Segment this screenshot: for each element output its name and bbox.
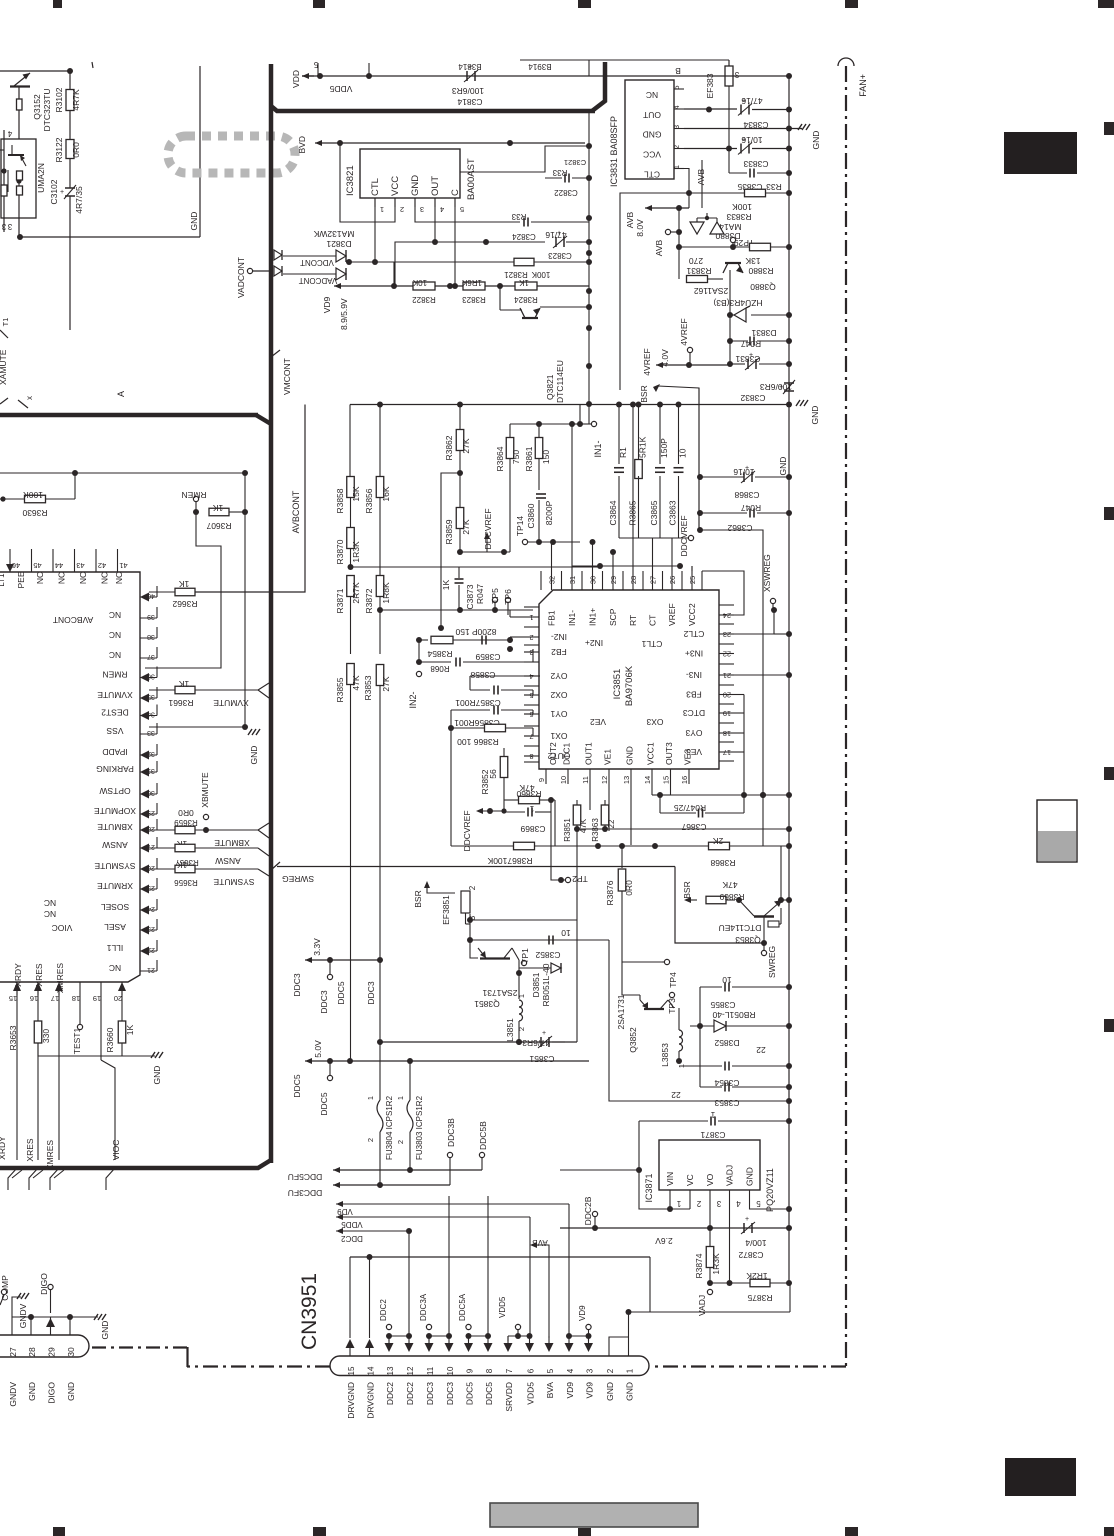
svg-text:28: 28 (27, 1347, 37, 1357)
registration mark top 1 (53, 0, 62, 8)
wire box around Q3851 (466, 923, 471, 925)
svg-text:Q3851: Q3851 (474, 999, 500, 1009)
wire R3821 to bus (534, 261, 589, 263)
svg-text:ANSW: ANSW (102, 840, 128, 850)
svg-text:BVD: BVD (297, 136, 307, 153)
resistor R3858 15K (347, 477, 355, 498)
svg-text:R3102: R3102 (54, 87, 64, 112)
svg-text:2.6V: 2.6V (655, 1236, 673, 1246)
svg-text:1K: 1K (441, 579, 451, 590)
svg-text:FU3803 ICPS1R2: FU3803 ICPS1R2 (415, 1095, 424, 1160)
svg-text:HZU4R3(B3): HZU4R3(B3) (713, 298, 762, 308)
svg-text:DDC3: DDC3 (319, 990, 329, 1013)
left IC pin 23 ASEL (140, 929, 157, 931)
diode D3821 pair at bus (left half) (274, 250, 282, 260)
IC3851 bottom pin 11 OUT1 (589, 769, 591, 784)
svg-text:XMRES: XMRES (45, 1140, 55, 1171)
svg-text:AVBCONT: AVBCONT (53, 615, 93, 625)
svg-text:AVB: AVB (696, 168, 706, 185)
resistor R3630 100K (0, 498, 24, 500)
resistor R3866 100 (448, 725, 454, 731)
svg-text:DDC3A: DDC3A (419, 1293, 428, 1321)
IC3851 bottom pin 14 VCC1 (651, 769, 653, 784)
IC3851 top pin 27 CT (652, 566, 654, 590)
svg-text:VIOC: VIOC (52, 923, 73, 933)
wire pin17-20 stubs (734, 694, 744, 696)
svg-text:R3868: R3868 (710, 858, 735, 868)
resistor R3862 27K (459, 405, 461, 431)
svg-text:DDCVREF: DDCVREF (483, 508, 493, 549)
rail y=846 long (555, 845, 789, 847)
net DDCVREF arrow left (476, 808, 483, 814)
svg-text:11: 11 (426, 1366, 435, 1375)
terminal DDC2B (592, 1211, 597, 1216)
svg-text:C3868: C3868 (734, 490, 759, 500)
wire VIOC down (100, 995, 102, 1060)
svg-text:47/16: 47/16 (545, 230, 567, 240)
connector CN3951 body (330, 1356, 649, 1376)
wire row y=795 to x=763 and 789 (744, 794, 789, 796)
svg-text:3: 3 (734, 70, 739, 79)
wire VD9 x=569 down (568, 1204, 570, 1336)
svg-text:1: 1 (396, 1096, 405, 1100)
svg-text:2K: 2K (712, 836, 723, 846)
svg-text:VDD5: VDD5 (329, 84, 352, 94)
wire VDCONT into diode (283, 255, 336, 257)
svg-text:DDC3B: DDC3B (446, 1118, 456, 1147)
svg-text:DDC3: DDC3 (445, 1382, 455, 1405)
tick marks top left (18, 400, 28, 408)
chain boundary line bottom right horizontal (651, 1365, 846, 1367)
svg-text:BSR: BSR (682, 881, 692, 898)
svg-text:5: 5 (546, 1368, 555, 1373)
left IC pin 40 NC (140, 596, 157, 598)
svg-text:+: + (745, 1216, 749, 1223)
svg-text:IN3-: IN3- (686, 670, 702, 680)
svg-text:SYSMUTE: SYSMUTE (213, 877, 254, 887)
IC3831 BA08SFP body (625, 80, 674, 179)
left IC pin 26 SYSMUTE (140, 868, 157, 870)
svg-text:19: 19 (93, 994, 101, 1003)
svg-text:VD9: VD9 (322, 296, 332, 313)
svg-text:1R6K: 1R6K (461, 278, 482, 287)
svg-text:GND: GND (811, 131, 821, 150)
svg-text:XRDY: XRDY (13, 963, 23, 987)
svg-text:R3874: R3874 (694, 1253, 704, 1278)
svg-text:7: 7 (505, 1368, 514, 1373)
svg-text:DIGO: DIGO (39, 1273, 49, 1295)
resistor R3869 47K and BSR arrow (684, 897, 691, 903)
IC3851 left pin 7 (524, 735, 539, 737)
svg-text:R047/25: R047/25 (674, 803, 706, 813)
svg-text:D3852: D3852 (714, 1038, 739, 1048)
svg-text:47K: 47K (722, 880, 737, 890)
wire pin23 CTL2 right to x=774 (734, 633, 774, 635)
svg-text:IC3871: IC3871 (644, 1173, 654, 1202)
svg-text:PEE: PEE (16, 571, 26, 588)
registration mark top 2 (313, 0, 325, 8)
rail y=567 (351, 566, 601, 568)
svg-text:DDC2: DDC2 (379, 1299, 388, 1321)
svg-text:VCC: VCC (643, 150, 661, 160)
IC3851 left pin 4 (524, 675, 539, 677)
junction wires DDC2 pins 13/12 (388, 1336, 390, 1341)
svg-text:OUT3: OUT3 (664, 742, 674, 765)
svg-text:FAN+: FAN+ (858, 74, 868, 97)
svg-text:1R3K: 1R3K (711, 1253, 721, 1275)
svg-text:CTL: CTL (370, 178, 381, 196)
transistor UMA2N (dual digital transistor box) (1, 139, 36, 218)
svg-text:330: 330 (41, 1029, 51, 1043)
resistor R3853 27K (379, 610, 381, 654)
wire R3862 tap left down to 8200P row (441, 473, 460, 628)
svg-text:CN3951: CN3951 (298, 1273, 321, 1350)
svg-text:OX3: OX3 (646, 717, 663, 727)
svg-text:28: 28 (629, 576, 638, 584)
svg-text:C3831: C3831 (735, 354, 760, 364)
svg-text:R3864: R3864 (495, 446, 505, 471)
net DDCVREF arrow up (484, 532, 490, 539)
svg-text:R3607: R3607 (206, 521, 231, 531)
svg-text:10: 10 (561, 928, 571, 938)
svg-text:SWREG: SWREG (282, 874, 314, 884)
svg-text:XRMUTE: XRMUTE (97, 881, 133, 891)
svg-text:C3824: C3824 (512, 232, 536, 241)
wires GND pins 1/2 (609, 1337, 629, 1356)
svg-text:2SA1731: 2SA1731 (482, 988, 517, 998)
wire left long vertical from R3833 row (620, 193, 700, 390)
wire x=763 vertical to 846 (762, 795, 764, 846)
wire RMEN down to pin36 (145, 512, 221, 668)
junction wires DDC3 pins 11/10 (428, 1336, 430, 1341)
svg-text:XOPMUTE: XOPMUTE (94, 806, 136, 816)
test point TP2 (565, 877, 570, 882)
svg-text:1K: 1K (212, 503, 223, 513)
svg-text:R047: R047 (741, 503, 762, 513)
svg-text:TP6: TP6 (503, 589, 513, 605)
svg-text:150: 150 (541, 450, 551, 464)
registration mark right edge 4 (1104, 1019, 1114, 1032)
svg-text:VD9: VD9 (337, 1207, 353, 1216)
rail y=538 collect caps (619, 537, 691, 539)
terminal DDC3B (447, 1152, 452, 1157)
wire pin1 to R3875 net (629, 1311, 791, 1313)
svg-text:38: 38 (147, 633, 155, 640)
IC3851 bottom pin 12 VE1 (608, 769, 610, 784)
resistor R3874 1R3K (709, 1228, 711, 1247)
svg-text:R3872: R3872 (364, 588, 374, 613)
svg-text:21: 21 (147, 966, 155, 973)
svg-text:1K: 1K (178, 679, 189, 689)
IC3851 left pin 5 (524, 694, 539, 696)
left IC pin 29 XOPMUTE (140, 813, 157, 815)
svg-text:47K: 47K (579, 818, 588, 833)
svg-text:DDC5FU: DDC5FU (288, 1172, 322, 1182)
svg-text:TP2: TP2 (572, 874, 588, 884)
IC3851 left pin 6 (524, 713, 539, 715)
IC3851 top pin 28 RT (632, 566, 634, 590)
IC op-amp IC3821 BA00AST body (360, 149, 460, 198)
svg-text:20: 20 (723, 691, 731, 700)
svg-text:VE1: VE1 (603, 749, 613, 765)
wire x=589 vertical collector bus (588, 110, 590, 424)
wire pin3 GND right (415, 198, 520, 222)
svg-text:C3821: C3821 (564, 158, 586, 167)
rail y=552 to R3864 (460, 551, 510, 553)
svg-text:1: 1 (672, 165, 681, 169)
svg-text:VADJ: VADJ (725, 1165, 735, 1186)
svg-text:R068: R068 (430, 664, 450, 673)
svg-text:OUT1: OUT1 (584, 742, 594, 765)
svg-text:R3122: R3122 (54, 137, 64, 162)
svg-text:8200P: 8200P (544, 500, 554, 525)
svg-text:10/16: 10/16 (733, 467, 755, 477)
left IC pin 33 VSS (140, 733, 157, 735)
registration mark bottom 3 (below grey bar) (578, 1528, 591, 1536)
resistor R3854 horizontal (419, 639, 428, 641)
svg-text:IN2-: IN2- (551, 632, 567, 642)
connector left stub body (pins 27-30) (0, 1335, 89, 1357)
wire diode common to CTL net (346, 259, 352, 265)
resistor R3822 10K (413, 282, 435, 290)
svg-text:44: 44 (55, 561, 63, 570)
svg-text:R047: R047 (475, 584, 485, 605)
svg-text:VIN: VIN (665, 1172, 675, 1186)
rail x=789 mid section (788, 404, 790, 795)
svg-text:COMP: COMP (0, 1275, 10, 1301)
svg-text:XRDY: XRDY (0, 1136, 7, 1160)
svg-text:Q3152: Q3152 (32, 94, 42, 120)
rail x=730 EF3831 down (728, 60, 730, 66)
svg-text:DDC3: DDC3 (366, 981, 376, 1004)
svg-text:12: 12 (406, 1366, 415, 1375)
svg-text:DDCVREF: DDCVREF (679, 515, 689, 556)
svg-text:PARKING: PARKING (96, 764, 134, 774)
resistor R3861 150 (538, 424, 540, 438)
resistor R3833 100K (700, 192, 745, 194)
svg-text:DDC5: DDC5 (319, 1092, 329, 1115)
svg-text:11: 11 (581, 776, 590, 784)
svg-text:4VREF: 4VREF (679, 318, 689, 345)
rail x=789 lower (788, 795, 790, 1283)
wire VDD rail y=76 (302, 75, 589, 77)
svg-text:1K: 1K (178, 579, 189, 589)
transistor Q3880 2SA1162 (725, 262, 741, 264)
rail IN1- y=424 left (510, 423, 580, 425)
net SWREG rail y=866 (277, 866, 675, 868)
svg-text:VDD5: VDD5 (526, 1382, 536, 1405)
left IC pin 21 NC (140, 970, 157, 972)
svg-text:SOSEL: SOSEL (101, 902, 130, 912)
junction VD9 pins 4/3 (569, 1335, 589, 1337)
svg-text:100K: 100K (732, 202, 752, 212)
svg-text:22: 22 (671, 1090, 681, 1100)
black color patch upper right (1004, 132, 1077, 174)
svg-text:20: 20 (114, 994, 122, 1003)
rail y=542 right (560, 541, 580, 543)
svg-text:C3864: C3864 (608, 500, 618, 525)
capacitor C3831 47/16 (on 4VREF) (747, 359, 749, 369)
gray bar bottom center (490, 1503, 698, 1527)
svg-text:BSR: BSR (413, 890, 423, 907)
left IC pin 27 ANSW (140, 847, 157, 849)
svg-text:4: 4 (440, 205, 444, 214)
transistor Q3853 DTC114EU (739, 900, 754, 916)
svg-text:XSWREG: XSWREG (762, 554, 772, 592)
svg-text:2: 2 (517, 1027, 526, 1031)
svg-text:DDC2B: DDC2B (583, 1196, 593, 1225)
svg-text:PQ20VZ11: PQ20VZ11 (765, 1168, 775, 1212)
wire VADCONT into diode (283, 273, 336, 275)
svg-text:VMCONT: VMCONT (282, 358, 292, 395)
svg-text:1: 1 (380, 205, 384, 214)
svg-text:OUT2: OUT2 (548, 742, 558, 765)
thick bus vertical x=271 long (269, 412, 274, 1163)
resistor R3653 330 on pin16? vertical (34, 1021, 42, 1043)
resistor R3102 4R7K (69, 71, 71, 89)
capacitor C3853 22 (724, 1083, 726, 1092)
svg-text:5: 5 (672, 85, 681, 89)
svg-text:BSR: BSR (639, 385, 649, 402)
svg-text:VDD5: VDD5 (498, 1296, 507, 1318)
svg-text:R3821: R3821 (504, 270, 528, 279)
net IN2- terminal (416, 671, 421, 676)
test point TP6 (505, 597, 510, 602)
svg-text:R3875: R3875 (747, 1293, 772, 1303)
svg-text:C3860: C3860 (526, 503, 536, 528)
svg-text:R3858: R3858 (335, 488, 345, 513)
svg-text:C3851: C3851 (529, 1054, 554, 1064)
IC3851 bottom pin 15 OUT3 (670, 769, 672, 784)
inductor L3851 (519, 1000, 523, 1007)
svg-text:+: + (60, 189, 64, 196)
IC3851 bottom pin 16 VE3 (688, 769, 690, 784)
svg-text:1: 1 (366, 1096, 375, 1100)
svg-text:3: 3 (716, 1199, 721, 1208)
svg-text:C3863: C3863 (668, 500, 678, 525)
svg-text:4R7K: 4R7K (71, 89, 81, 111)
svg-text:56: 56 (488, 769, 498, 779)
svg-text:2: 2 (400, 205, 404, 214)
capacitor C3858 R068 (418, 640, 420, 662)
svg-text:SYSMUTE: SYSMUTE (94, 861, 135, 871)
svg-text:OUT: OUT (643, 110, 661, 120)
wire VDD5 x=530 down (529, 1217, 531, 1336)
svg-text:R3859: R3859 (444, 519, 454, 544)
svg-text:IN1-: IN1- (567, 610, 577, 626)
svg-text:150P: 150P (659, 438, 669, 458)
gray dashed highlight oval (168, 136, 295, 173)
fuse FU3803 ICPS1R2 (407, 1100, 413, 1132)
svg-text:16: 16 (30, 994, 38, 1003)
svg-text:2: 2 (606, 1368, 615, 1373)
svg-text:1R3K: 1R3K (351, 541, 361, 563)
svg-text:1R2K: 1R2K (746, 1271, 768, 1281)
svg-text:C3833: C3833 (743, 159, 768, 169)
svg-text:22: 22 (607, 819, 616, 828)
svg-text:100K: 100K (23, 490, 43, 500)
svg-text:5.0V: 5.0V (313, 1040, 323, 1058)
test point TP4 (664, 959, 669, 964)
svg-text:VD9: VD9 (565, 1382, 575, 1399)
net RMEN terminal and R3607 1K (193, 496, 198, 501)
svg-text:43: 43 (76, 561, 84, 570)
svg-text:AVB: AVB (532, 1238, 547, 1247)
fuse FU3804 ICPS1R2 (377, 1100, 383, 1132)
box pin4 loop (470, 675, 540, 677)
net 4VREF arrow (655, 364, 657, 366)
terminal DIGO (48, 1284, 53, 1289)
svg-text:SRVDD: SRVDD (504, 1382, 514, 1412)
svg-text:33: 33 (147, 729, 155, 736)
registration mark bottom 1 (53, 1527, 65, 1536)
left IC pin 36 RMEN (140, 677, 157, 679)
svg-text:2SA1731: 2SA1731 (616, 994, 626, 1029)
resistor R3859 27K (459, 473, 461, 508)
svg-text:R33: R33 (511, 212, 526, 221)
resistor R3860 47K (504, 799, 519, 801)
svg-text:2R7K: 2R7K (351, 582, 361, 604)
wire GND net down right (199, 66, 201, 237)
left IC pin 38 NC (140, 637, 157, 639)
net XSWREG terminal (770, 598, 775, 603)
transistor Q3851 2SA1731 (480, 957, 510, 959)
resistor R3872 1R8K (376, 576, 384, 597)
svg-text:D3831: D3831 (751, 328, 776, 338)
gray/white color patch right middle (1037, 800, 1077, 862)
svg-text:16: 16 (680, 776, 689, 784)
rail DDC3 y=960 (304, 959, 306, 961)
svg-text:VCC: VCC (390, 176, 401, 196)
svg-text:1: 1 (626, 1368, 635, 1373)
svg-text:27K: 27K (461, 519, 471, 534)
wire x=488 DDC5 down (487, 1196, 489, 1336)
chain boundary line to left connector (92, 1346, 187, 1348)
svg-text:1K: 1K (125, 1024, 135, 1035)
svg-text:DRVGND: DRVGND (366, 1382, 376, 1419)
svg-text:R3661: R3661 (168, 698, 193, 708)
flag SYSMUTE to bus (271, 862, 280, 870)
svg-text:3: 3 (672, 125, 681, 129)
left IC pin 31 PARKING (140, 771, 157, 773)
svg-text:x: x (25, 396, 34, 400)
net SWREG terminal (761, 950, 766, 955)
wire DDC2 x=409 down (408, 1231, 410, 1336)
svg-text:VE3: VE3 (686, 747, 702, 757)
svg-text:1: 1 (517, 994, 526, 998)
svg-text:T1: T1 (1, 318, 10, 327)
net VADCONT open terminal (247, 268, 252, 273)
svg-text:GND: GND (625, 746, 635, 765)
svg-text:2: 2 (366, 1138, 375, 1142)
svg-text:XRES: XRES (34, 963, 44, 986)
wires bottom pins to rails (608, 784, 610, 831)
registration mark bottom 2 (313, 1527, 326, 1536)
resistor R3855 47K (347, 664, 355, 685)
svg-text:IC3851: IC3851 (612, 669, 623, 700)
net VD9 rail y=1204 (335, 1203, 337, 1205)
svg-text:0R0: 0R0 (624, 880, 634, 896)
svg-text:R1: R1 (618, 447, 628, 458)
svg-text:4.0V: 4.0V (660, 349, 670, 367)
svg-text:NC: NC (109, 610, 121, 620)
capacitor C3852 10 (548, 936, 550, 945)
svg-text:22: 22 (756, 1045, 766, 1055)
svg-text:DTC114EU: DTC114EU (719, 923, 762, 933)
svg-text:2: 2 (529, 633, 533, 642)
svg-text:R3856: R3856 (364, 488, 374, 513)
svg-text:R3863: R3863 (591, 818, 600, 842)
